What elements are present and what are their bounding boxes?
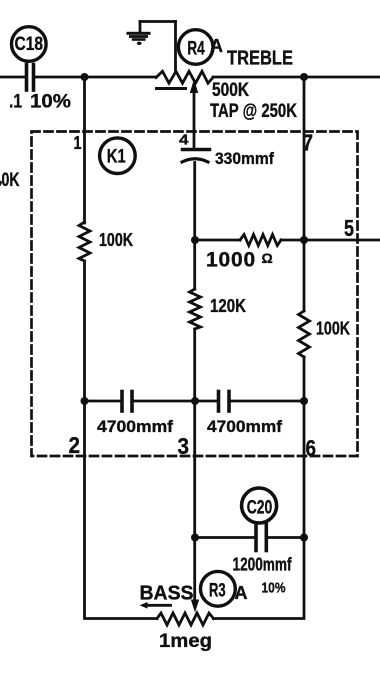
potentiometer R4	[156, 30, 213, 149]
wire node2 to cap	[85, 400, 121, 403]
svg-text:5: 5	[344, 215, 354, 241]
wire 100K to node2	[83, 261, 86, 401]
svg-text:Ω: Ω	[262, 250, 273, 266]
capacitor C18	[12, 27, 47, 90]
svg-text:10%: 10%	[30, 92, 71, 113]
svg-text:500K: 500K	[212, 80, 249, 101]
tap bar	[157, 87, 186, 90]
svg-text:1: 1	[74, 133, 82, 153]
svg-text:1200mmf: 1200mmf	[233, 555, 293, 575]
wire cap to node3	[134, 400, 217, 403]
resistor 100K (left)	[79, 222, 133, 261]
wire 1000ohm to right edge (node 5)	[281, 239, 380, 242]
svg-text:TREBLE: TREBLE	[227, 48, 293, 70]
wire 100K right to node6	[303, 357, 306, 401]
resistor 1000 ohm	[206, 235, 281, 272]
wire node3 down to C20 junction	[193, 401, 196, 538]
wire 330mmf to node junction	[193, 163, 196, 241]
capacitor 4700mmf (right)	[207, 392, 282, 437]
svg-text:100K: 100K	[99, 230, 133, 250]
svg-text:A: A	[210, 36, 223, 56]
svg-text:330mmf: 330mmf	[215, 149, 274, 168]
wire node7 down to 100K right	[303, 240, 306, 311]
node junction (195,240)	[191, 236, 199, 244]
node junction at x=84 top rail	[81, 73, 89, 81]
svg-text:10%: 10%	[262, 580, 286, 597]
wire 120K to node3	[193, 329, 196, 401]
wire cap to node6	[231, 400, 304, 403]
svg-text:TAP @ 250K: TAP @ 250K	[210, 101, 297, 122]
node junction (304,240)	[300, 236, 308, 244]
svg-text:.1: .1	[9, 92, 22, 113]
svg-text:0K: 0K	[2, 170, 20, 191]
svg-text:4700mmf: 4700mmf	[207, 417, 282, 436]
wire node6 down to bottom rail	[214, 401, 305, 619]
resistor 100K (right)	[299, 311, 351, 357]
K1 designator	[100, 138, 136, 174]
node junction (195,401)	[191, 397, 199, 405]
svg-text:R3: R3	[209, 581, 226, 602]
svg-text:3: 3	[178, 433, 190, 459]
potentiometer R3	[157, 538, 235, 626]
svg-text:100K: 100K	[316, 319, 350, 339]
node junction top rail x=304	[300, 73, 308, 81]
wire junction down to 120K	[193, 240, 196, 289]
label BASS with arrow	[140, 583, 194, 609]
wiper arrow	[193, 93, 196, 149]
capacitor 4700mmf (left)	[97, 392, 173, 437]
svg-text:7: 7	[303, 130, 314, 156]
svg-text:1000: 1000	[206, 249, 256, 272]
node junction (304,401)	[300, 397, 308, 405]
wire top rail left of C18	[0, 76, 25, 79]
svg-text:K1: K1	[107, 147, 126, 168]
svg-text:2: 2	[69, 432, 81, 458]
svg-text:6: 6	[306, 435, 317, 461]
ground	[127, 22, 176, 73]
svg-text:4: 4	[179, 132, 189, 149]
svg-text:1meg: 1meg	[159, 631, 212, 652]
resistor 120K	[190, 289, 247, 329]
svg-text:C20: C20	[247, 497, 273, 518]
svg-text:R4: R4	[187, 39, 205, 60]
svg-text:C18: C18	[15, 34, 44, 55]
capacitor 330mmf (node 4)	[179, 132, 274, 169]
svg-text:4700mmf: 4700mmf	[97, 417, 173, 436]
wire node7 vertical	[303, 77, 306, 240]
network box K1 (dashed)	[32, 132, 358, 457]
svg-text:120K: 120K	[210, 296, 246, 316]
node junction (84.5,401)	[81, 397, 89, 405]
wire node1 vertical drop	[83, 77, 86, 223]
wire junction to 1000ohm	[195, 239, 240, 242]
capacitor C20	[191, 488, 308, 551]
wiper arrow down	[193, 538, 196, 601]
svg-text:A: A	[235, 583, 248, 603]
wire top rail R4 to right edge	[213, 76, 380, 79]
wire node2 down to bottom rail	[85, 401, 158, 619]
wire top rail C18 to R4	[36, 76, 156, 79]
svg-text:BASS: BASS	[140, 583, 194, 605]
